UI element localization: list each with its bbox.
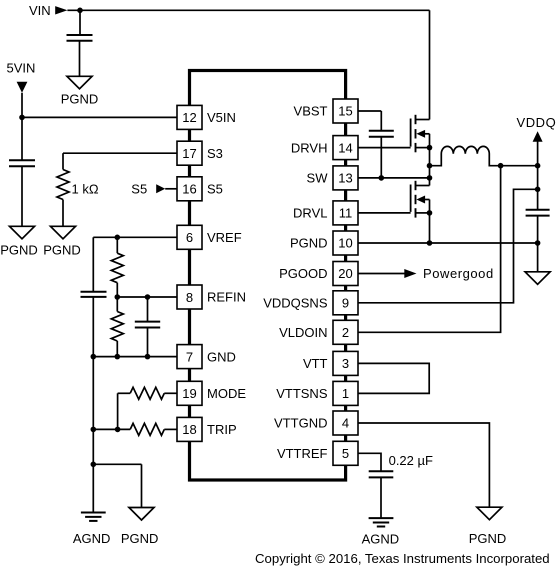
svg-text:PGND: PGND (469, 531, 507, 546)
svg-text:DRVH: DRVH (291, 140, 328, 155)
svg-text:TRIP: TRIP (207, 422, 237, 437)
svg-text:DRVL: DRVL (293, 206, 327, 221)
svg-text:MODE: MODE (207, 386, 246, 401)
svg-text:4: 4 (342, 416, 349, 431)
svg-text:VLDOIN: VLDOIN (279, 325, 327, 340)
svg-text:VTTREF: VTTREF (277, 446, 328, 461)
svg-text:10: 10 (338, 236, 352, 251)
svg-text:VDDQSNS: VDDQSNS (263, 295, 328, 310)
svg-text:PGND: PGND (61, 91, 99, 106)
svg-text:3: 3 (342, 356, 349, 371)
svg-text:S5: S5 (131, 182, 147, 197)
svg-text:PGOOD: PGOOD (279, 266, 327, 281)
svg-text:12: 12 (182, 110, 196, 125)
svg-text:11: 11 (339, 206, 353, 221)
svg-text:VBST: VBST (294, 104, 328, 119)
svg-text:9: 9 (342, 295, 349, 310)
svg-text:7: 7 (186, 349, 193, 364)
svg-text:VTT: VTT (303, 356, 328, 371)
svg-text:AGND: AGND (73, 531, 111, 546)
svg-text:AGND: AGND (362, 531, 400, 546)
svg-text:VIN: VIN (29, 3, 51, 18)
svg-text:13: 13 (338, 171, 352, 186)
svg-text:8: 8 (186, 290, 193, 305)
svg-text:1: 1 (342, 386, 349, 401)
svg-text:Powergood: Powergood (423, 266, 494, 281)
svg-text:VREF: VREF (207, 230, 242, 245)
svg-text:6: 6 (186, 230, 193, 245)
svg-text:REFIN: REFIN (207, 290, 246, 305)
svg-text:PGND: PGND (121, 531, 159, 546)
svg-text:S3: S3 (207, 146, 223, 161)
svg-text:GND: GND (207, 349, 236, 364)
svg-text:14: 14 (338, 140, 352, 155)
svg-text:18: 18 (182, 422, 196, 437)
svg-text:Copyright © 2016, Texas Instru: Copyright © 2016, Texas Instruments Inco… (255, 551, 550, 566)
svg-text:VTTSNS: VTTSNS (276, 386, 328, 401)
svg-text:PGND: PGND (290, 236, 328, 251)
svg-text:19: 19 (182, 386, 196, 401)
svg-text:S5: S5 (207, 181, 223, 196)
svg-text:2: 2 (342, 325, 349, 340)
svg-text:1 kΩ: 1 kΩ (72, 181, 99, 196)
svg-text:V5IN: V5IN (207, 110, 236, 125)
svg-text:SW: SW (307, 171, 329, 186)
svg-text:PGND: PGND (0, 243, 38, 258)
svg-text:PGND: PGND (43, 243, 81, 258)
svg-text:0.22 µF: 0.22 µF (389, 453, 433, 468)
svg-text:15: 15 (338, 104, 352, 119)
svg-text:5VIN: 5VIN (7, 60, 36, 75)
svg-text:VDDQ: VDDQ (517, 115, 557, 130)
svg-text:VTTGND: VTTGND (274, 416, 327, 431)
svg-text:5: 5 (342, 446, 349, 461)
svg-text:16: 16 (182, 182, 196, 197)
svg-text:17: 17 (182, 146, 196, 161)
svg-text:20: 20 (338, 266, 352, 281)
